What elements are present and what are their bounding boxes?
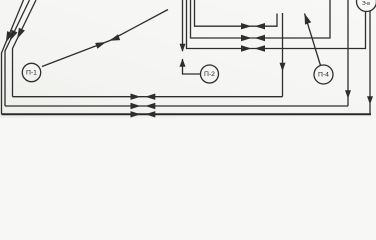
arrowhead on П-1 diagonal pointing down-left xyxy=(110,34,121,41)
bottom line L3 (darker, thicker) xyxy=(2,113,372,115)
arrow pair on M3 xyxy=(241,45,252,51)
arrow pair on L2 xyxy=(131,103,141,109)
wire diagonal from П-4 up-left xyxy=(305,14,321,66)
arrowhead down on V348 xyxy=(345,90,351,98)
arrowhead down on П-2 branch xyxy=(180,44,186,52)
wire V348 from top down to L2 right end xyxy=(347,0,349,106)
svg-text:Э-в: Э-в xyxy=(362,1,370,7)
arrowhead on diagonal 2 xyxy=(10,30,18,41)
arrow pair on L3 xyxy=(131,111,141,117)
wire left diagonal 3 (inner) xyxy=(13,0,37,97)
node П-1 circle xyxy=(22,63,40,81)
wire diagonal from П-1 to upper right xyxy=(42,10,168,67)
node Э-в circle (clipped at top right) xyxy=(357,0,376,12)
arrowhead on diagonal 3 xyxy=(17,28,25,39)
node П-2 circle xyxy=(201,65,219,83)
wire M1 trunk xyxy=(195,0,278,26)
arrowhead up on П-2 branch xyxy=(180,59,186,67)
wire left diagonal 1 (outer) xyxy=(2,0,24,114)
arrow pair on L1 xyxy=(131,94,141,100)
arrowhead down on V370 xyxy=(367,96,373,104)
arrowhead on diagonal 1 xyxy=(6,31,13,42)
arrow pair on M1 xyxy=(241,23,252,29)
arrowhead down on V282 xyxy=(280,63,286,72)
svg-text:П-2: П-2 xyxy=(204,71,215,78)
wire M3 trunk to Э-в xyxy=(187,0,366,49)
arrow pair on M2 xyxy=(241,35,252,41)
arrowhead up-left on П-4 diagonal xyxy=(305,14,312,25)
arrowhead on П-1 diagonal pointing up-right xyxy=(95,42,106,49)
bottom line L1 xyxy=(13,96,283,98)
bottom line L2 xyxy=(5,105,348,107)
wire M2 trunk xyxy=(191,0,331,38)
svg-text:П-4: П-4 xyxy=(318,72,329,79)
svg-text:П-1: П-1 xyxy=(26,70,37,77)
wire V282 from open top down to L1 right end xyxy=(282,13,284,97)
wire П-2 branch lower part to circle xyxy=(183,59,201,74)
wire left diagonal 2 (middle) xyxy=(5,0,30,106)
wire V370 from Э-в down to L3 right end xyxy=(369,11,371,114)
wire vertical П-2 branch upper part xyxy=(182,0,184,51)
node П-4 circle xyxy=(314,65,333,84)
